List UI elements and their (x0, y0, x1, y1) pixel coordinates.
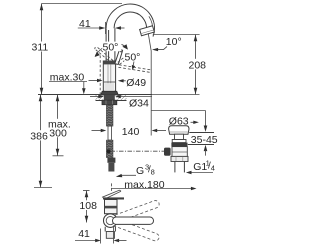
leader 10deg (154, 47, 168, 50)
drain counter top line (189, 132, 214, 134)
dim 140 (92, 130, 102, 132)
body (103, 61, 115, 91)
supply hose lower (106, 140, 113, 158)
spout arc inner (114, 12, 146, 34)
ref line spout height (153, 34, 200, 36)
counter bottom line (96, 100, 127, 102)
svg-text:140: 140 (122, 126, 140, 138)
svg-text:108: 108 (79, 200, 97, 212)
counter hatch right (116, 95, 127, 101)
svg-text:Ø34: Ø34 (129, 98, 149, 110)
waste neck (175, 134, 184, 139)
lever dashed up (112, 200, 161, 224)
spout stub top plate (103, 197, 124, 199)
body inner lines (107, 64, 109, 91)
body cartridge cap (103, 61, 115, 64)
waste seal ring (171, 143, 187, 147)
lever solid (113, 217, 154, 224)
leader max.180 (111, 183, 113, 191)
svg-text:41: 41 (78, 228, 90, 240)
supply hose upper (106, 105, 113, 127)
svg-text:300: 300 (49, 127, 67, 139)
waste step flange (172, 140, 186, 143)
svg-text:50°: 50° (125, 51, 141, 63)
svg-text:35-45: 35-45 (191, 134, 218, 146)
dim 208 (195, 35, 197, 95)
svg-text:50°: 50° (103, 42, 119, 54)
spout axis 10 deg line (148, 33, 151, 135)
mounting nut (102, 100, 117, 105)
waste tailpipe (174, 162, 176, 173)
horizontal ref line to drain scaffold (152, 110, 206, 112)
riser tube (105, 28, 107, 61)
dim max300 (57, 95, 59, 156)
counter top extension to 208 (152, 94, 200, 96)
hose end fitting G3/8 (107, 158, 115, 163)
pop-up rod junction dot (107, 149, 111, 153)
spout stub diagonals (102, 190, 120, 197)
dim 35-45 (205, 111, 207, 127)
label 50deg no2 (124, 52, 142, 62)
handle dashed position left (97, 47, 113, 61)
svg-text:G: G (136, 165, 144, 177)
svg-text:Ø49: Ø49 (126, 77, 146, 89)
waste locknut (171, 156, 188, 161)
dim dia34 (90, 96, 100, 98)
drain counter bottom line (188, 144, 214, 146)
dim 311 top bar (42, 3, 123, 5)
svg-text:Ø63: Ø63 (169, 116, 189, 128)
handle tip cap (119, 49, 122, 52)
base flange (101, 91, 119, 95)
counter top line (38, 94, 152, 96)
dim 108 (83, 190, 90, 192)
collar band (105, 206, 118, 209)
handle dashed position right-down (118, 53, 130, 63)
body chamfer (bottom view) (105, 198, 110, 202)
base below hub (105, 227, 115, 232)
dim 386 (40, 95, 42, 188)
label 311 (31, 42, 50, 52)
svg-text:3: 3 (145, 162, 149, 171)
svg-text:208: 208 (189, 60, 207, 72)
counter hatch left (96, 95, 104, 101)
waste rod joint (164, 148, 171, 156)
hub outer circle (104, 214, 118, 228)
body (bottom view) (105, 200, 118, 214)
dimension arc 50deg no1 (95, 44, 127, 56)
label 50deg no1 (102, 42, 121, 52)
waste plug cap (169, 126, 189, 134)
handle dashed position down (front of body) (99, 56, 101, 95)
lever dashed down (112, 218, 161, 242)
aerator collar (140, 26, 155, 36)
svg-text:4: 4 (211, 164, 215, 173)
spout arc mid shading (149, 16, 153, 31)
leader G1 1/4 (191, 172, 214, 174)
svg-text:max.180: max.180 (124, 179, 164, 191)
dim 311 line (41, 4, 43, 95)
svg-text:10°: 10° (166, 36, 182, 48)
waste body (172, 147, 187, 157)
hub inner circle (106, 217, 114, 225)
leader G3/8 (118, 175, 137, 176)
handle lever (upright) (115, 49, 123, 64)
spout arc outer (106, 4, 154, 37)
body lower band (104, 81, 115, 83)
svg-text:8: 8 (151, 168, 155, 177)
supply hose middle thin (108, 126, 111, 140)
svg-text:386: 386 (30, 130, 48, 142)
pop-up rod horizontal (111, 150, 165, 152)
shank through counter (104, 95, 115, 100)
leader 50deg no2 (133, 62, 134, 67)
svg-text:311: 311 (32, 42, 49, 54)
